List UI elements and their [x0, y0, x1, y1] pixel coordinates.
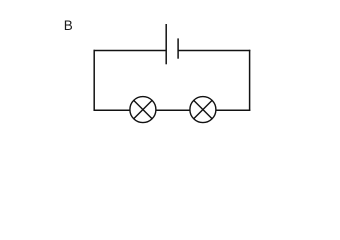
wire bottom-middle: [156, 109, 190, 111]
wire top-right: [178, 50, 250, 52]
svg-text:B: B: [64, 18, 73, 33]
wire left vertical: [93, 50, 95, 111]
wire top-left: [94, 50, 167, 52]
wire right vertical: [249, 50, 251, 111]
wire bottom-left: [94, 109, 131, 111]
label B: [64, 18, 73, 33]
lamp 2: [190, 97, 216, 123]
battery cell: [166, 24, 178, 64]
wire bottom-right: [216, 109, 250, 111]
lamp 1: [130, 97, 156, 123]
